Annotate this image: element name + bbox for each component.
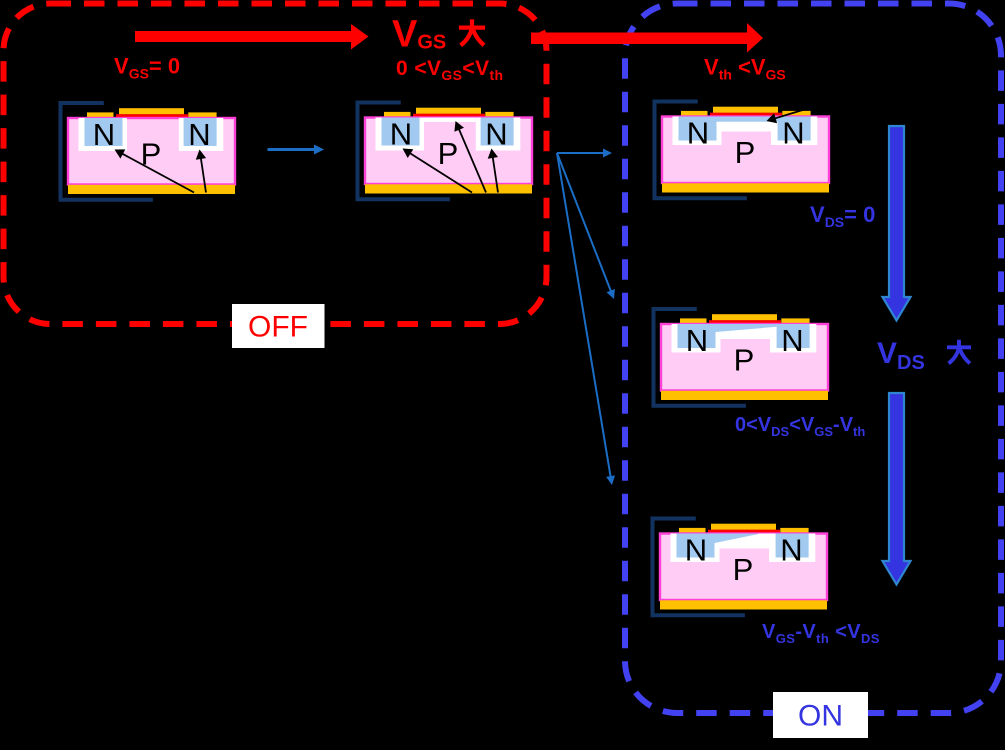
MOSFET 5 (saturation): drain metal contact <box>780 528 808 534</box>
MOSFET 3 (VDS=0): bulk contact bracket <box>655 102 747 199</box>
svg-text:N: N <box>781 323 803 358</box>
svg-text:P: P <box>735 135 756 170</box>
MOSFET 1: depletion arrow to drain well <box>200 155 206 192</box>
MOSFET 3 (VDS=0): depletion region band (white) <box>673 117 818 146</box>
svg-text:P: P <box>734 343 755 378</box>
svg-text:N: N <box>188 117 210 152</box>
MOSFET 3 (VDS=0): gate metal contact <box>713 107 778 113</box>
MOSFET 2 (0<VGS<Vth): gate oxide (red) <box>413 114 485 118</box>
MOSFET 2 (0<VGS<Vth): thin depletion layer under gate (white) <box>424 118 476 123</box>
svg-text:N: N <box>687 115 709 150</box>
svg-text:N: N <box>390 116 412 151</box>
ON state label <box>773 692 868 738</box>
MOSFET 4 (linear region): depletion region band (white) <box>672 324 817 353</box>
MOSFET 3 (VDS=0): central P hump <box>722 132 772 152</box>
MOSFET 1 (VGS=0): gate metal contact <box>119 108 184 114</box>
MOSFET 1 (VGS=0): drain N+ well <box>184 118 217 146</box>
MOSFET 2 (0<VGS<Vth): substrate bottom metal <box>365 184 532 193</box>
MOSFET 1: depletion arrow to source well <box>120 152 195 192</box>
MOSFET 5 (saturation): depletion region band (white) <box>671 534 816 563</box>
OFF state region (red dashed box) <box>4 4 547 325</box>
MOSFET 1 (VGS=0): depletion region around drain N+ well (white) <box>179 118 224 151</box>
MOSFET 5 (saturation): gate oxide (red) <box>708 530 780 534</box>
MOSFET 3: arrow to inversion channel <box>772 109 806 119</box>
MOSFET 5 (saturation): bulk contact bracket <box>653 519 745 616</box>
svg-text:OFF: OFF <box>248 311 308 344</box>
MOSFET 3 (VDS=0): source N+ well <box>679 117 717 141</box>
blue arrow MOSFET1 to MOSFET2 <box>268 148 319 151</box>
MOSFET 3 (VDS=0): drain metal contact <box>782 111 810 117</box>
MOSFET 5 (saturation): drain N+ well <box>776 534 809 558</box>
MOSFET 4 (linear region): P substrate body <box>661 324 828 391</box>
MOSFET 2 (0<VGS<Vth): source N+ well <box>382 118 420 146</box>
MOSFET 1 (VGS=0): bulk contact bracket <box>61 103 153 200</box>
MOSFET 1 (VGS=0): depletion region around source N+ well (white) <box>79 118 128 151</box>
MOSFET 2 (0<VGS<Vth): gate metal contact <box>416 108 481 114</box>
MOSFET 5 (saturation): source metal contact <box>679 528 706 534</box>
CJK dai glyph (blue) <box>947 340 971 364</box>
MOSFET 4 (linear region): bulk contact bracket <box>654 309 746 406</box>
ON state region (blue dashed box) <box>625 4 1001 714</box>
MOSFET 2 (0<VGS<Vth): bulk contact bracket <box>358 103 450 200</box>
MOSFET 2 (0<VGS<Vth): depletion region around source N+ well (white) <box>376 118 425 151</box>
svg-text:P: P <box>438 136 459 171</box>
big blue arrow VDS (upper) <box>883 126 911 321</box>
MOSFET 2 (0<VGS<Vth): P substrate body <box>365 118 532 185</box>
MOSFET 4 (linear region): source N+ well <box>678 324 716 348</box>
MOSFET 2 (0<VGS<Vth): drain N+ well <box>481 118 514 146</box>
fan arrow to MOSFET3 <box>557 152 607 154</box>
fan arrow to MOSFET5 <box>557 153 611 480</box>
MOSFET 3 (VDS=0): substrate bottom metal <box>662 183 829 192</box>
svg-text:0<VDS<VGS-Vth: 0<VDS<VGS-Vth <box>735 414 865 439</box>
svg-text:N: N <box>686 323 708 358</box>
MOSFET 5 (saturation): pinched-off channel wedge (blue) <box>715 534 759 544</box>
fan arrow to MOSFET4 <box>557 153 612 294</box>
MOSFET 4 (linear region): source metal contact <box>680 318 707 324</box>
OFF state label <box>232 304 325 348</box>
MOSFET 4 (linear region): drain N+ well <box>777 324 810 348</box>
MOSFET 4 (linear region): tapered inversion channel wedge (blue) <box>716 324 777 332</box>
MOSFET 4 (linear region): gate metal contact <box>712 314 777 320</box>
MOSFET 1 (VGS=0): drain metal contact <box>188 112 216 118</box>
svg-text:N: N <box>782 115 804 150</box>
MOSFET 3 (VDS=0): drain N+ well <box>778 117 811 141</box>
red arrow: VGS increasing (left) <box>135 24 369 50</box>
svg-text:N: N <box>780 532 802 567</box>
MOSFET 2: depletion arrow to source well <box>407 152 472 193</box>
MOSFET 1 (VGS=0): P substrate body <box>68 118 235 185</box>
MOSFET 4 (linear region): central P hump <box>721 339 771 359</box>
MOSFET 5 (saturation): gate metal contact <box>711 524 776 530</box>
MOSFET 1 (VGS=0): source N+ well <box>85 118 123 146</box>
CJK dai glyph (red) <box>459 19 485 45</box>
MOSFET 3 (VDS=0): full inversion channel layer (blue) <box>679 117 811 122</box>
MOSFET 2 (0<VGS<Vth): source metal contact <box>384 112 411 118</box>
svg-text:ON: ON <box>798 700 843 733</box>
MOSFET 3 (VDS=0): gate oxide (red) <box>710 113 782 117</box>
MOSFET 3 (VDS=0): P substrate body <box>662 117 829 184</box>
MOSFET 4 (linear region): drain metal contact <box>781 318 809 324</box>
MOSFET 4 (linear region): substrate bottom metal <box>661 391 828 400</box>
svg-text:P: P <box>733 552 754 587</box>
MOSFET 5 (saturation): substrate bottom metal <box>660 600 827 609</box>
red arrow: VGS increasing (right) <box>531 23 763 53</box>
svg-text:N: N <box>93 117 115 152</box>
MOSFET 2: arrow to gate depletion layer <box>458 126 486 192</box>
MOSFET 5 (saturation): P substrate body <box>660 534 827 601</box>
MOSFET 1 (VGS=0): source metal contact <box>87 112 114 118</box>
MOSFET 4 (linear region): gate oxide (red) <box>709 320 781 324</box>
MOSFET 2 (0<VGS<Vth): drain metal contact <box>485 112 513 118</box>
MOSFET 2: depletion arrow to drain well <box>492 154 498 192</box>
MOSFET 2 (0<VGS<Vth): depletion region around drain N+ well (white) <box>476 118 521 151</box>
big blue arrow VDS (lower) <box>883 393 911 585</box>
MOSFET 1 (VGS=0): substrate bottom metal <box>68 185 235 194</box>
MOSFET 5 (saturation): source N+ well <box>677 534 715 558</box>
svg-text:N: N <box>685 532 707 567</box>
svg-text:N: N <box>485 116 507 151</box>
MOSFET 3 (VDS=0): source metal contact <box>681 111 708 117</box>
MOSFET 5 (saturation): central P hump <box>720 549 770 569</box>
MOSFET 1 (VGS=0): gate oxide (red) <box>116 114 188 118</box>
